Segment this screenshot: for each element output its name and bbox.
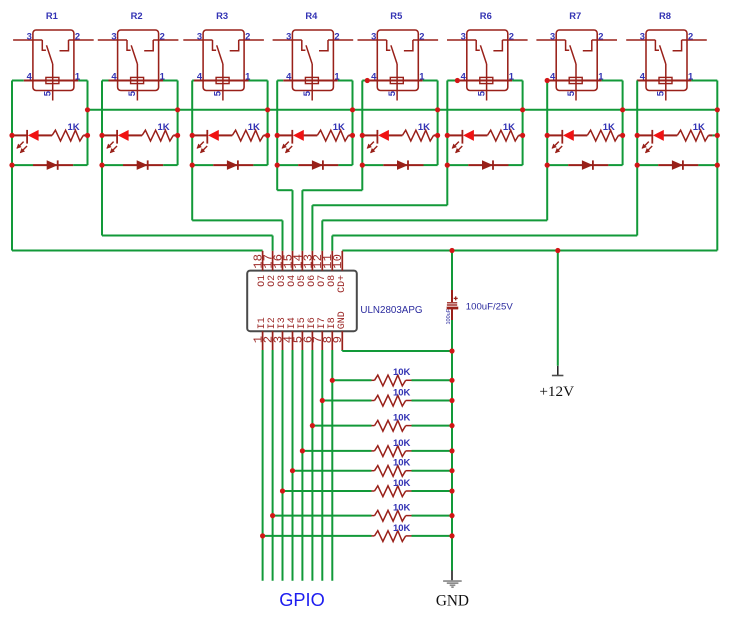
svg-text:1: 1: [598, 71, 603, 82]
svg-text:GND: GND: [337, 311, 348, 329]
svg-text:1K: 1K: [693, 122, 705, 133]
svg-text:1: 1: [75, 71, 80, 82]
svg-text:R4: R4: [305, 10, 318, 21]
svg-text:10K: 10K: [393, 523, 411, 534]
svg-text:2: 2: [419, 31, 424, 42]
svg-text:5: 5: [126, 91, 137, 96]
svg-text:10K: 10K: [393, 387, 411, 398]
svg-text:10K: 10K: [393, 438, 411, 449]
svg-text:1K: 1K: [158, 122, 170, 133]
svg-text:3: 3: [286, 31, 291, 42]
svg-text:4: 4: [640, 71, 646, 82]
svg-text:4: 4: [197, 71, 203, 82]
svg-text:2: 2: [334, 31, 339, 42]
svg-text:1K: 1K: [603, 122, 615, 133]
svg-text:4: 4: [371, 71, 377, 82]
svg-text:1: 1: [509, 71, 514, 82]
svg-text:5: 5: [475, 91, 486, 96]
svg-text:R8: R8: [659, 10, 671, 21]
svg-text:5: 5: [386, 91, 397, 96]
svg-text:5: 5: [655, 91, 666, 96]
svg-text:100uF/25V: 100uF/25V: [466, 301, 514, 312]
svg-text:GPIO: GPIO: [279, 590, 324, 610]
svg-text:R2: R2: [131, 10, 143, 21]
svg-text:R1: R1: [46, 10, 58, 21]
svg-text:1: 1: [419, 71, 424, 82]
svg-text:3: 3: [550, 31, 555, 42]
svg-text:100uF: 100uF: [446, 308, 452, 324]
svg-text:9: 9: [331, 336, 345, 343]
svg-text:2: 2: [688, 31, 693, 42]
svg-text:R3: R3: [216, 10, 228, 21]
svg-text:2: 2: [509, 31, 514, 42]
svg-text:1K: 1K: [68, 122, 80, 133]
svg-text:3: 3: [197, 31, 202, 42]
svg-text:2: 2: [160, 31, 165, 42]
svg-text:10: 10: [331, 254, 345, 269]
svg-text:1K: 1K: [418, 122, 430, 133]
svg-text:10K: 10K: [393, 478, 411, 489]
svg-text:4: 4: [286, 71, 292, 82]
svg-text:CD+: CD+: [337, 275, 348, 293]
svg-text:1K: 1K: [333, 122, 345, 133]
svg-text:1K: 1K: [248, 122, 260, 133]
svg-text:1: 1: [334, 71, 339, 82]
svg-text:10K: 10K: [393, 367, 411, 378]
svg-text:3: 3: [640, 31, 645, 42]
svg-text:3: 3: [371, 31, 376, 42]
svg-text:4: 4: [461, 71, 467, 82]
svg-text:2: 2: [75, 31, 80, 42]
svg-text:5: 5: [565, 91, 576, 96]
svg-text:4: 4: [550, 71, 556, 82]
svg-text:R6: R6: [480, 10, 492, 21]
svg-text:10K: 10K: [393, 413, 411, 424]
svg-text:R5: R5: [390, 10, 402, 21]
svg-text:4: 4: [27, 71, 33, 82]
svg-text:2: 2: [598, 31, 603, 42]
svg-text:5: 5: [301, 91, 312, 96]
svg-text:10K: 10K: [393, 458, 411, 469]
svg-text:10K: 10K: [393, 503, 411, 514]
svg-text:4: 4: [111, 71, 117, 82]
svg-text:3: 3: [461, 31, 466, 42]
svg-text:3: 3: [111, 31, 116, 42]
svg-text:5: 5: [42, 91, 53, 96]
svg-text:+12V: +12V: [539, 383, 574, 400]
svg-text:2: 2: [245, 31, 250, 42]
svg-text:1: 1: [160, 71, 165, 82]
svg-text:1: 1: [688, 71, 693, 82]
svg-text:GND: GND: [436, 592, 469, 609]
svg-text:3: 3: [27, 31, 32, 42]
svg-text:ULN2803APG: ULN2803APG: [360, 305, 422, 316]
svg-text:5: 5: [212, 91, 223, 96]
svg-text:R7: R7: [569, 10, 581, 21]
svg-text:1: 1: [245, 71, 250, 82]
svg-text:1K: 1K: [503, 122, 515, 133]
